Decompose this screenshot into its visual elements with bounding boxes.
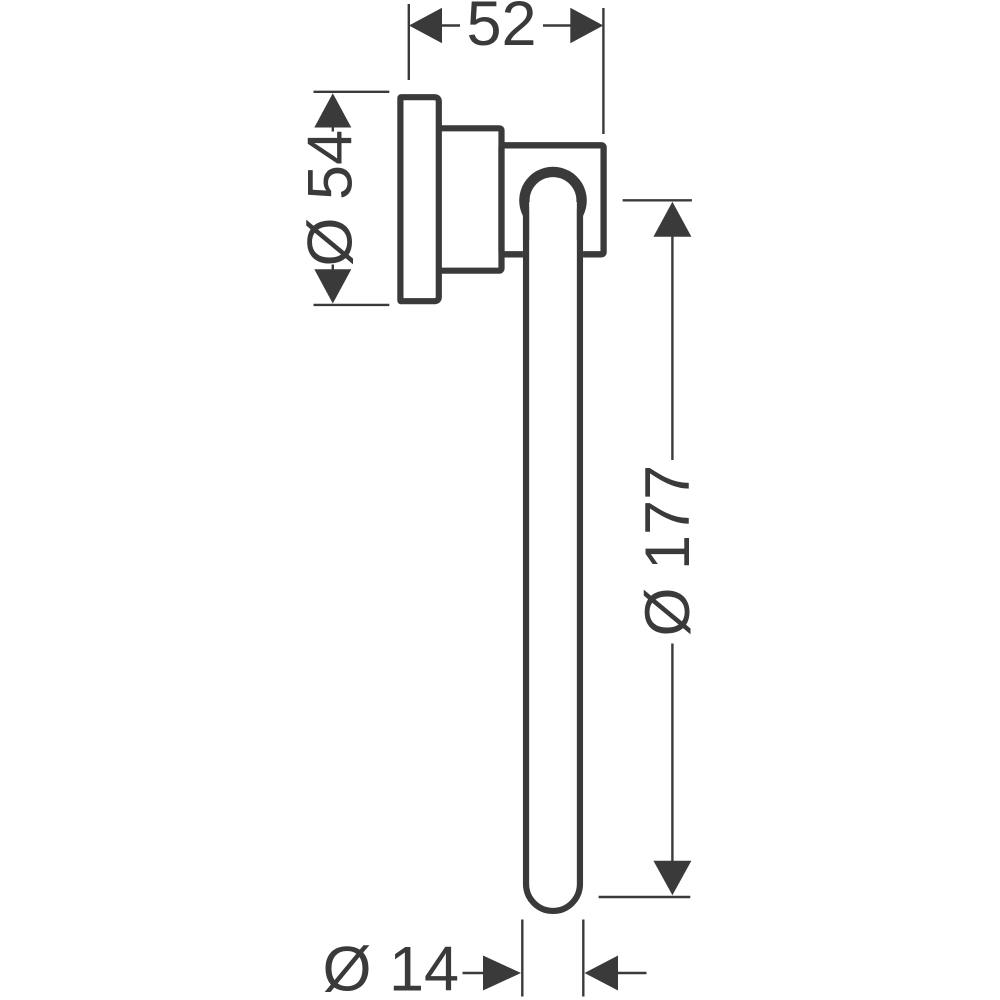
towel bar right edge [577,209,583,884]
dim 54 bottom tick [314,304,390,306]
towel bar bottom cap [526,884,580,911]
dim 54 top arrow [314,93,351,127]
dim 14 right extension line [582,920,584,997]
svg-text:Ø 14: Ø 14 [323,934,460,1000]
dim 14 left extension line [521,920,523,997]
dim 54 lower line stub [332,265,334,271]
flange (mounting escutcheon body) [438,128,502,270]
towel bar left edge [523,209,529,884]
dim 14 right leader line [617,972,647,974]
dim 52 left extension line [408,4,410,80]
svg-text:52: 52 [467,0,537,59]
dim 177 lower line [671,644,673,864]
dim 52 left arrow [409,8,442,43]
dim 54 top tick [314,91,390,93]
dim 177 bottom tick [599,896,691,898]
bracket (bar holder block) [502,145,604,254]
dim 54 upper line stub [332,127,334,132]
towel bar top cap inner white dome [530,177,577,224]
wall plate [400,97,438,301]
dim 52 right extension line [602,8,604,134]
dim 14 right arrow (points left) [585,956,619,991]
dim 52 right leader line [543,24,571,26]
dim 177 upper line [671,235,673,460]
dim 52 left leader line [441,24,460,26]
dim 54 bottom arrow [314,269,351,303]
svg-text:Ø 54: Ø 54 [296,130,366,267]
dim 14 left leader line [463,972,485,974]
dim 177 top tick [623,199,692,201]
towel bar top cap inner white throat [529,202,577,240]
svg-text:Ø 177: Ø 177 [633,465,703,637]
towel bar white body fill (occludes bracket bottom edge) [519,167,586,914]
dim 177 top arrow [653,202,691,237]
dim 177 bottom arrow [653,861,691,896]
dim 14 left arrow (points right) [483,956,521,991]
dim 52 right arrow [570,8,603,43]
towel bar top pivot cap (thick arc silhouette) [519,167,587,240]
